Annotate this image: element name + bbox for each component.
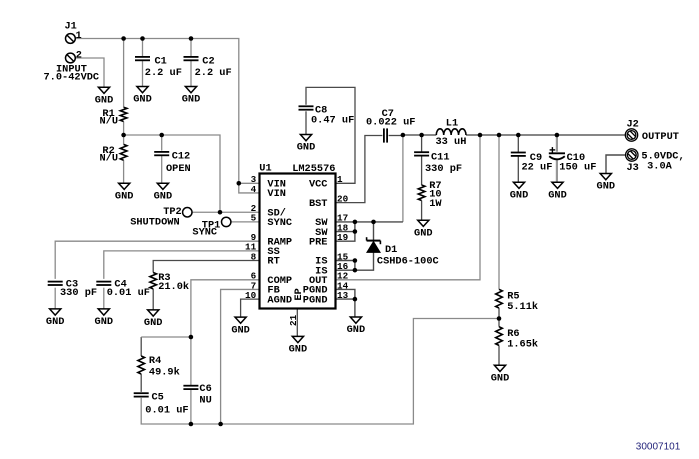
svg-text:PGND: PGND [303, 294, 328, 306]
svg-text:U1: U1 [259, 163, 271, 175]
svg-text:GND: GND [133, 94, 152, 106]
svg-text:L1: L1 [446, 117, 458, 129]
svg-text:PRE: PRE [309, 236, 328, 248]
svg-text:BST: BST [309, 198, 328, 210]
svg-text:C12: C12 [172, 151, 191, 163]
svg-text:GND: GND [154, 190, 173, 202]
svg-text:GND: GND [231, 324, 250, 336]
svg-text:5.11k: 5.11k [507, 301, 538, 313]
svg-text:N/U: N/U [100, 153, 119, 165]
svg-text:EP: EP [293, 288, 305, 300]
svg-text:19: 19 [337, 232, 349, 243]
svg-text:VCC: VCC [309, 179, 328, 191]
svg-text:GND: GND [115, 190, 134, 202]
svg-text:GND: GND [289, 344, 308, 356]
svg-text:2: 2 [76, 50, 82, 62]
svg-text:SHUTDOWN: SHUTDOWN [130, 217, 179, 229]
svg-text:8: 8 [251, 251, 257, 262]
svg-text:2.2 uF: 2.2 uF [145, 67, 182, 79]
svg-text:0.01 uF: 0.01 uF [107, 287, 150, 299]
svg-text:330 pF: 330 pF [425, 163, 462, 175]
svg-text:21: 21 [288, 314, 299, 326]
svg-text:150 uF: 150 uF [559, 162, 596, 174]
svg-text:330 pF: 330 pF [60, 287, 97, 299]
svg-text:0.022 uF: 0.022 uF [366, 116, 415, 128]
svg-text:1.65k: 1.65k [507, 338, 538, 350]
svg-text:SYNC: SYNC [267, 217, 292, 229]
svg-text:GND: GND [46, 316, 65, 328]
svg-text:1W: 1W [429, 198, 442, 210]
svg-text:GND: GND [548, 189, 567, 201]
svg-text:J2: J2 [627, 119, 639, 131]
svg-text:OUTPUT: OUTPUT [642, 131, 679, 143]
svg-text:J3: J3 [627, 162, 639, 174]
svg-text:RT: RT [267, 256, 279, 268]
svg-text:N/U: N/U [100, 116, 119, 128]
svg-text:GND: GND [95, 316, 114, 328]
svg-text:13: 13 [337, 290, 349, 301]
svg-text:GND: GND [297, 142, 316, 154]
svg-text:33 uH: 33 uH [436, 136, 467, 148]
svg-text:5: 5 [251, 213, 257, 224]
svg-text:4: 4 [251, 184, 257, 195]
svg-text:30007101: 30007101 [636, 441, 681, 452]
svg-text:3.0A: 3.0A [647, 160, 673, 172]
svg-text:D1: D1 [385, 244, 397, 256]
svg-text:NU: NU [199, 395, 211, 407]
svg-text:22 uF: 22 uF [522, 162, 553, 174]
svg-text:20: 20 [337, 193, 349, 204]
svg-text:GND: GND [414, 227, 433, 239]
svg-text:AGND: AGND [267, 294, 292, 306]
svg-text:1: 1 [76, 30, 82, 42]
svg-text:0.01 uF: 0.01 uF [145, 405, 188, 417]
svg-text:49.9k: 49.9k [149, 366, 180, 378]
svg-text:C1: C1 [155, 56, 167, 68]
svg-text:GND: GND [510, 189, 529, 201]
svg-text:10: 10 [245, 290, 257, 301]
svg-text:GND: GND [491, 373, 510, 385]
svg-text:C11: C11 [431, 152, 450, 164]
svg-text:LM25576: LM25576 [292, 163, 335, 175]
svg-text:VIN: VIN [267, 188, 286, 200]
svg-text:GND: GND [597, 181, 616, 193]
svg-text:C2: C2 [202, 56, 214, 68]
svg-text:2.2 uF: 2.2 uF [195, 67, 232, 79]
svg-text:GND: GND [144, 317, 163, 329]
svg-text:CSHD6-100C: CSHD6-100C [377, 255, 439, 267]
svg-text:OPEN: OPEN [166, 163, 191, 175]
svg-text:SYNC: SYNC [192, 227, 217, 239]
svg-text:GND: GND [347, 324, 366, 336]
svg-text:C6: C6 [199, 383, 211, 395]
svg-text:0.47 uF: 0.47 uF [311, 115, 354, 127]
svg-text:1: 1 [337, 174, 343, 185]
svg-text:7.0-42VDC: 7.0-42VDC [44, 72, 100, 84]
svg-text:21.0k: 21.0k [158, 281, 189, 293]
svg-text:C5: C5 [152, 392, 164, 404]
svg-text:GND: GND [95, 94, 114, 106]
svg-text:GND: GND [182, 94, 201, 106]
